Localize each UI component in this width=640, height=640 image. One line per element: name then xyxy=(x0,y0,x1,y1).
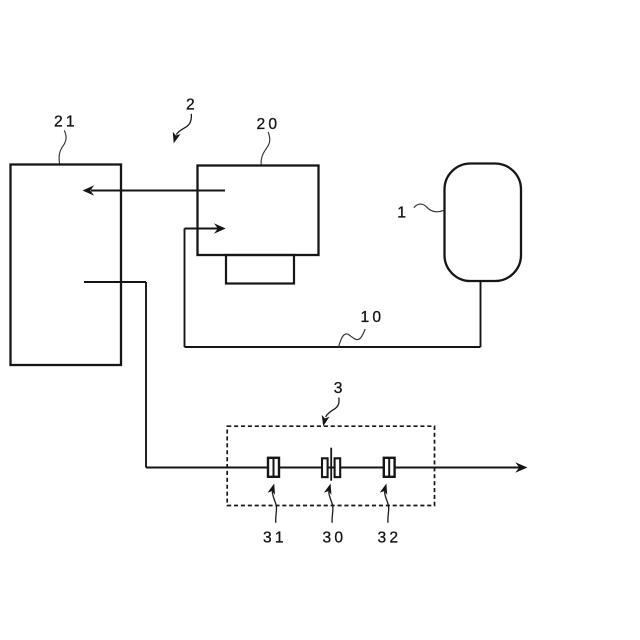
wire arrow from unit 20 to unit 21 xyxy=(83,185,226,196)
svg-text:2: 2 xyxy=(186,97,195,114)
svg-text:31: 31 xyxy=(263,530,287,547)
wire down pipe to filter line xyxy=(145,282,147,468)
svg-text:10: 10 xyxy=(361,309,385,326)
wire from tank 1 down xyxy=(480,281,482,347)
filter 32 (small component) xyxy=(384,458,395,477)
tank 1 (rounded vessel) xyxy=(445,164,522,282)
leader arrow for 31 xyxy=(268,482,278,522)
svg-text:32: 32 xyxy=(378,530,402,547)
leader arrow for 2 xyxy=(170,114,192,145)
leader line for 21 xyxy=(59,130,66,163)
leader arrow for 32 xyxy=(380,482,390,522)
component 30 (pump with two plates) xyxy=(322,448,340,481)
svg-text:20: 20 xyxy=(257,116,281,133)
box 20 (unit 20) xyxy=(198,166,319,256)
wire vertical riser to unit 20 xyxy=(184,229,186,348)
svg-text:21: 21 xyxy=(54,114,78,131)
leader arrow for 3 xyxy=(319,398,339,428)
wire 10 horizontal run xyxy=(185,346,481,348)
small protrusion box under unit 20 xyxy=(226,255,294,284)
dashed box 3 (filter group boundary) xyxy=(227,426,434,505)
box 21 (unit 21) xyxy=(11,165,122,366)
leader line for 20 xyxy=(261,132,270,165)
leader line for 10 xyxy=(338,329,365,347)
leader arrow for 30 xyxy=(324,482,334,522)
wire from unit 21 out (horizontal inside box) xyxy=(84,281,146,283)
wire arrow into unit 20 xyxy=(185,223,226,234)
filter 31 (small component) xyxy=(268,458,279,477)
svg-text:3: 3 xyxy=(334,380,343,397)
svg-text:1: 1 xyxy=(397,205,406,222)
svg-text:30: 30 xyxy=(323,530,347,547)
wire main fuel line with output arrow xyxy=(146,462,528,472)
leader line for 1 xyxy=(414,204,444,212)
